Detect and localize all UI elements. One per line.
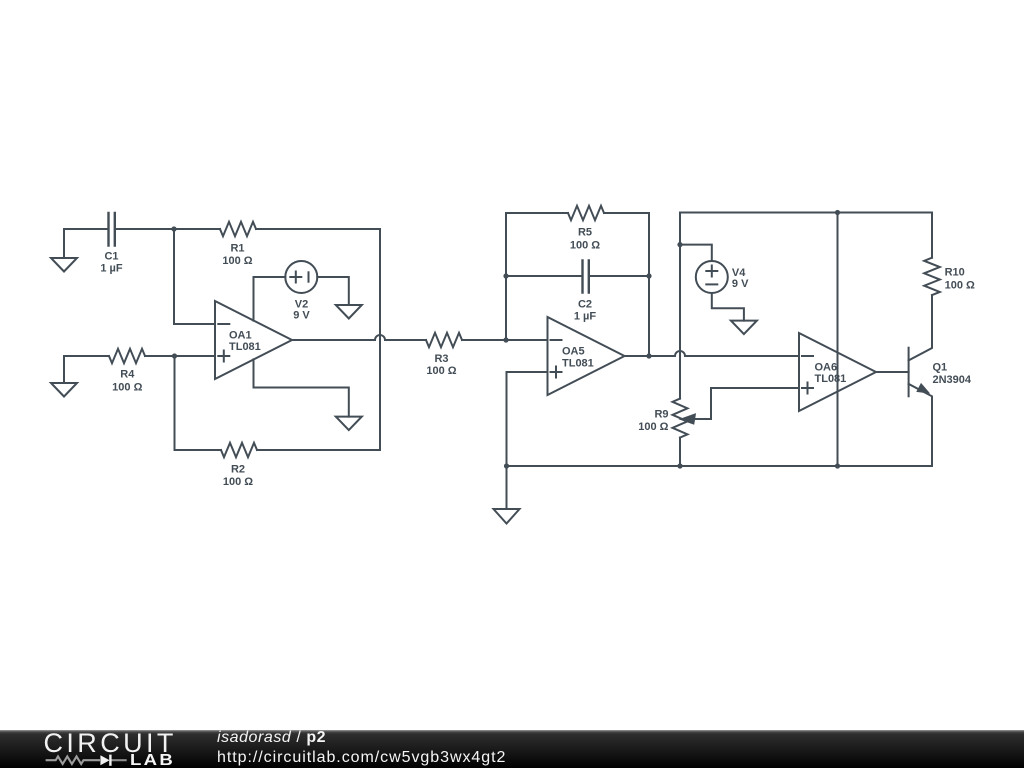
svg-text:C1: C1 <box>104 251 118 263</box>
svg-text:1 µF: 1 µF <box>574 311 597 323</box>
svg-text:TL081: TL081 <box>815 373 847 385</box>
svg-text:100 Ω: 100 Ω <box>945 279 975 291</box>
svg-text:R5: R5 <box>578 227 592 239</box>
svg-text:R1: R1 <box>230 243 244 255</box>
svg-text:100 Ω: 100 Ω <box>223 476 253 488</box>
svg-text:100 Ω: 100 Ω <box>570 240 600 252</box>
svg-text:2N3904: 2N3904 <box>933 374 972 386</box>
svg-text:9 V: 9 V <box>732 278 749 290</box>
svg-text:Q1: Q1 <box>933 362 948 374</box>
svg-text:TL081: TL081 <box>229 341 261 353</box>
svg-text:R9: R9 <box>654 409 668 421</box>
svg-text:OA6: OA6 <box>815 361 838 373</box>
svg-text:OA1: OA1 <box>229 330 252 342</box>
svg-text:R2: R2 <box>231 464 245 476</box>
svg-text:100 Ω: 100 Ω <box>426 365 456 377</box>
svg-text:100 Ω: 100 Ω <box>638 421 668 433</box>
svg-text:100 Ω: 100 Ω <box>112 382 142 394</box>
svg-text:R4: R4 <box>120 369 135 381</box>
svg-text:TL081: TL081 <box>562 358 594 370</box>
svg-text:100 Ω: 100 Ω <box>222 255 252 267</box>
svg-text:OA5: OA5 <box>562 346 585 358</box>
svg-text:9 V: 9 V <box>293 310 310 322</box>
svg-text:R10: R10 <box>945 267 965 279</box>
svg-text:1 µF: 1 µF <box>100 263 123 275</box>
svg-text:C2: C2 <box>578 299 592 311</box>
svg-text:R3: R3 <box>434 353 448 365</box>
